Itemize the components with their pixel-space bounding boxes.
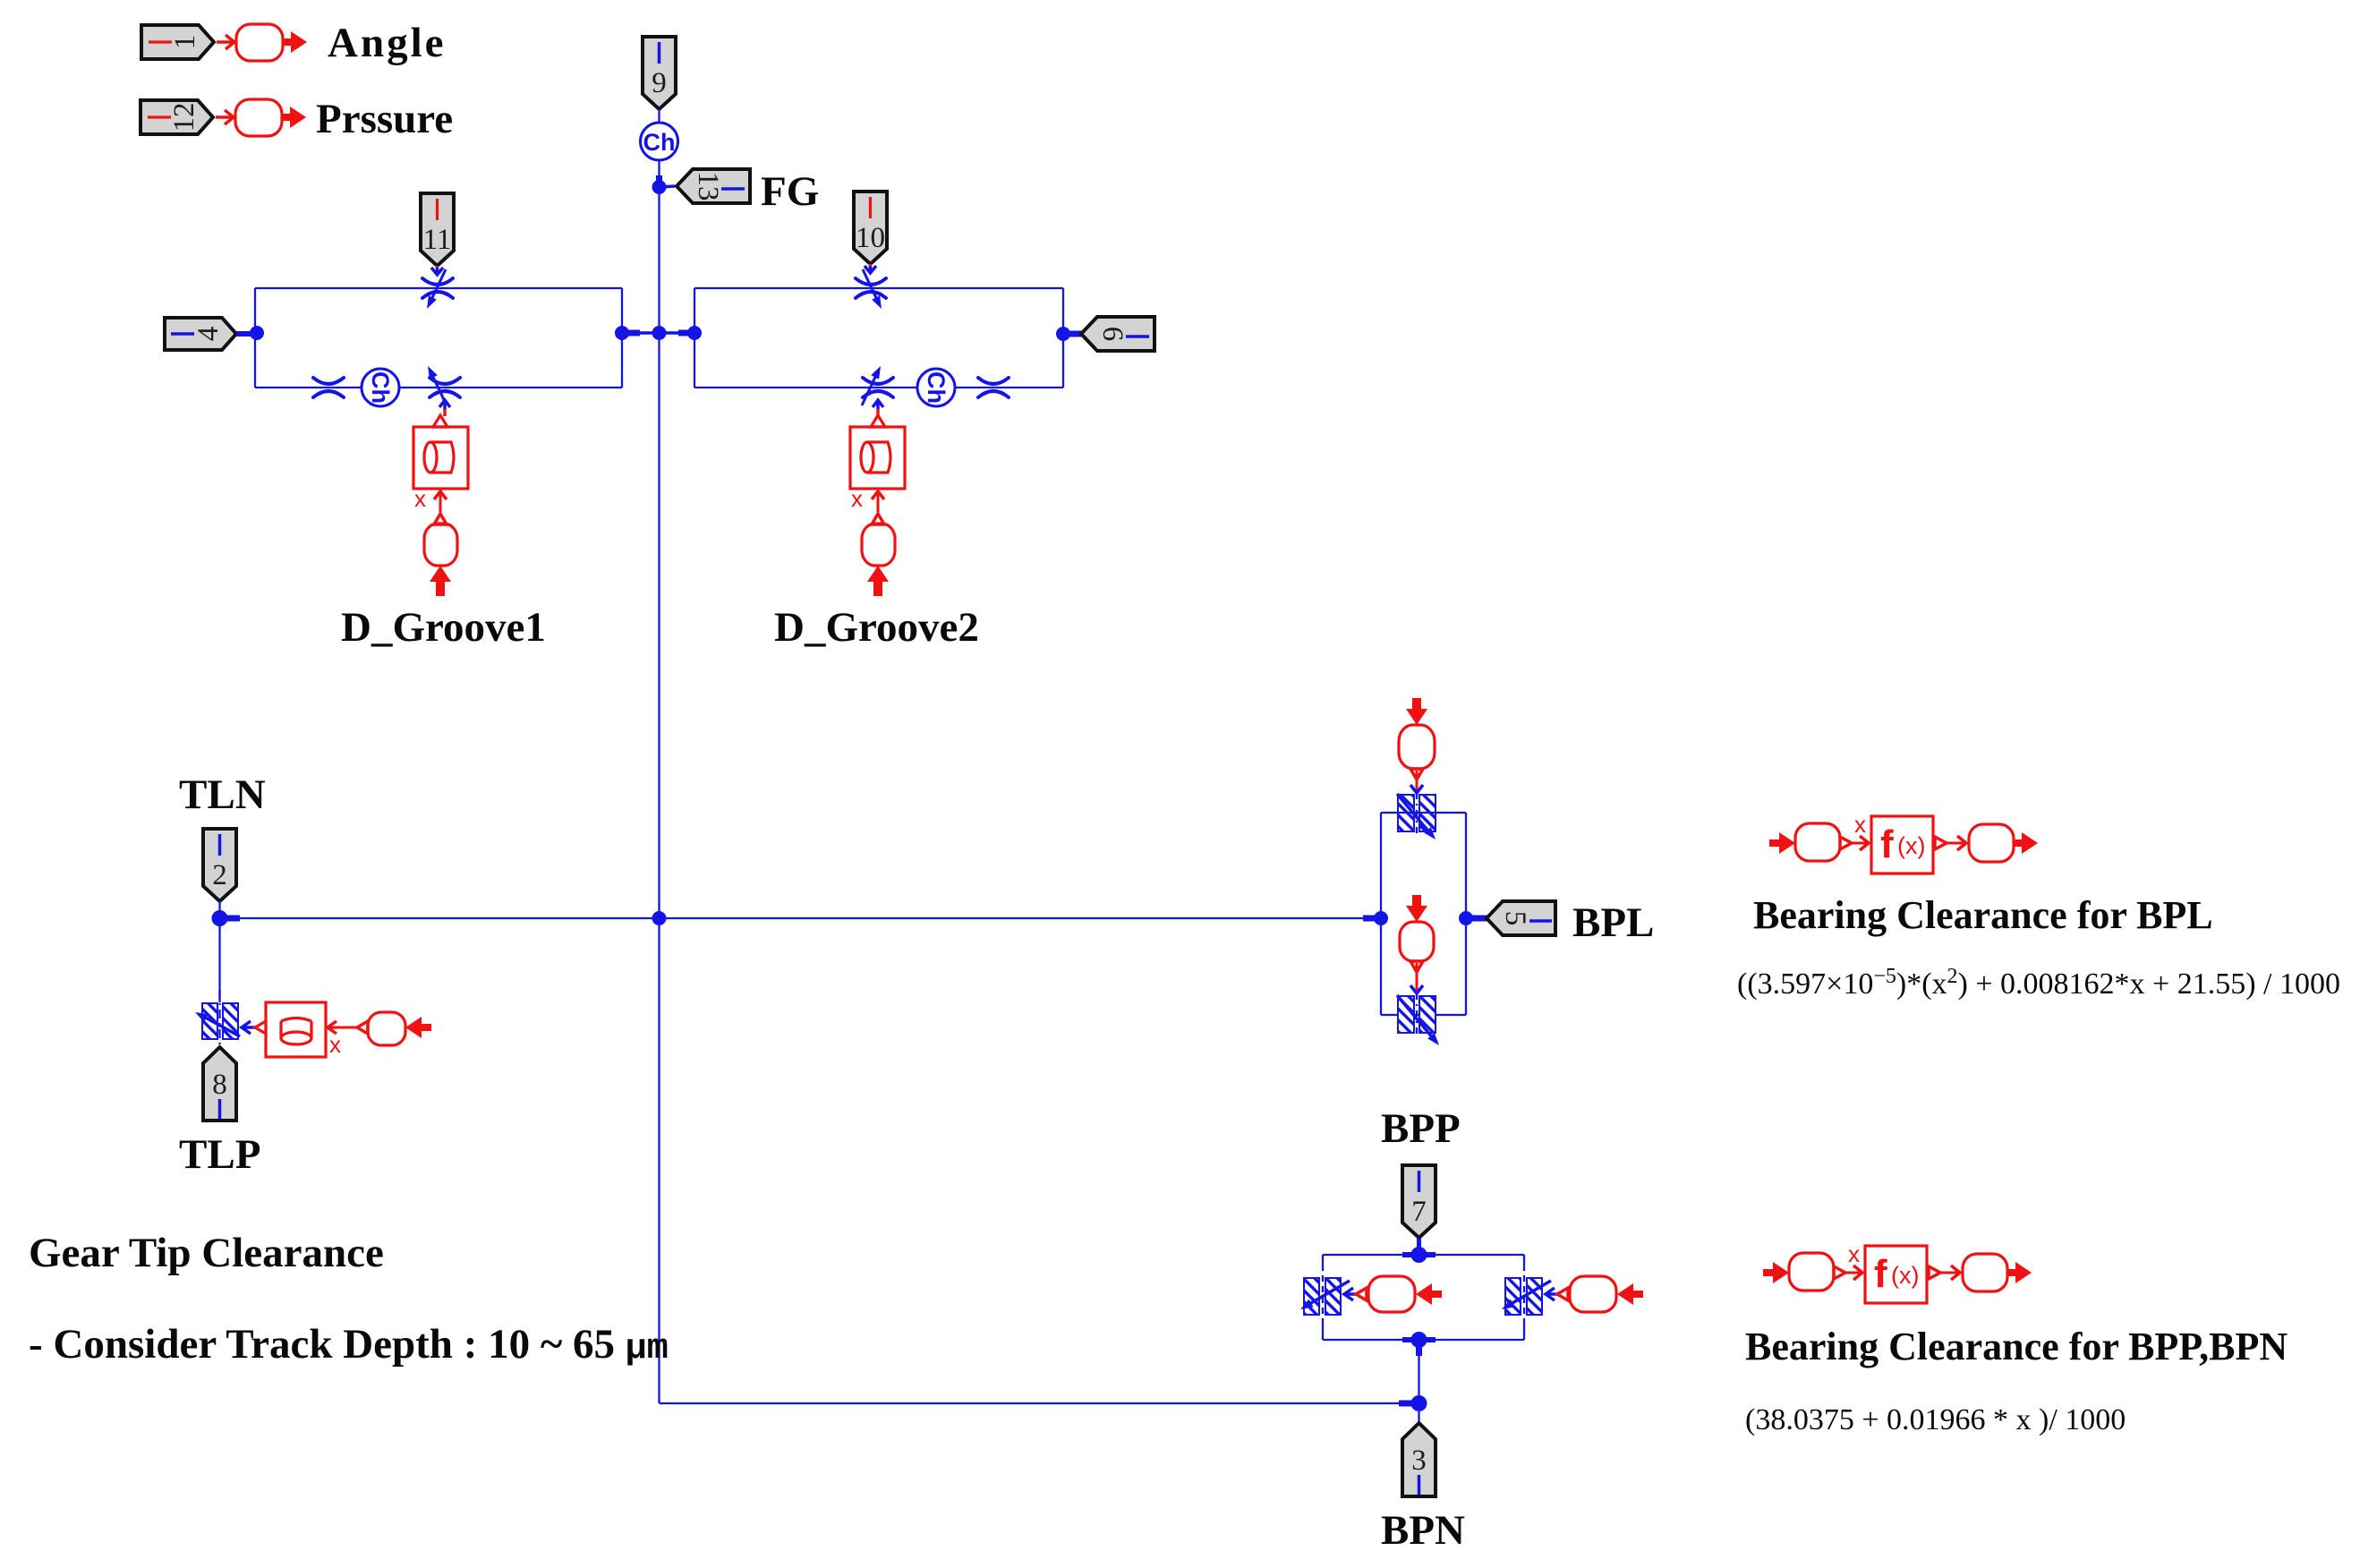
node BPN junction bbox=[1399, 1395, 1427, 1411]
signal ellipse (fx2 left) bbox=[1789, 1253, 1834, 1291]
wire loop2 to tag6 bbox=[1063, 331, 1083, 337]
svg-text:3: 3 bbox=[1411, 1444, 1427, 1477]
node BPL right port bbox=[1459, 911, 1488, 925]
signal arrow source to transducer (TLP) bbox=[328, 1021, 368, 1034]
svg-text:7: 7 bbox=[1411, 1196, 1427, 1228]
svg-text:BPL: BPL bbox=[1572, 899, 1654, 946]
signal wire with arrowhead (legend row 2) bbox=[216, 110, 234, 124]
node BPP bottom junction bbox=[1402, 1332, 1436, 1348]
svg-text:11: 11 bbox=[423, 224, 452, 256]
svg-text:(38.0375 + 0.01966 * x )/ 1000: (38.0375 + 0.01966 * x )/ 1000 bbox=[1745, 1403, 2126, 1436]
signal source ellipse (legend row 1) bbox=[236, 24, 283, 61]
MAINLINES-SECTION bbox=[220, 190, 1419, 1403]
tag 1 bbox=[141, 25, 214, 59]
node loop1 left port bbox=[250, 326, 264, 340]
GROOVE1-SECTION bbox=[165, 193, 694, 651]
solid input arrow (TLP source) bbox=[405, 1017, 431, 1038]
NOTES-SECTION bbox=[29, 1230, 669, 1369]
GROOVE2-SECTION bbox=[687, 192, 1154, 651]
TOP-SECTION bbox=[641, 37, 820, 215]
svg-text:BPP: BPP bbox=[1381, 1105, 1461, 1152]
signal ellipse (fx1 left) bbox=[1795, 823, 1840, 861]
tag 8 bbox=[203, 1047, 236, 1121]
svg-text:5: 5 bbox=[1499, 911, 1531, 926]
wire loop1 to main line bbox=[622, 331, 694, 335]
tag 12 bbox=[141, 100, 213, 134]
solid output arrow (fx2 right) bbox=[2007, 1262, 2032, 1283]
variable orifice (groove2 top) bbox=[856, 269, 886, 311]
leakage (BPL top) bbox=[1397, 793, 1439, 842]
LEGEND-SECTION bbox=[141, 20, 453, 142]
tag 5 bbox=[1487, 901, 1555, 935]
chamber Ch (top) bbox=[641, 123, 678, 160]
signal source (BPP right) bbox=[1557, 1276, 1616, 1312]
svg-text:4: 4 bbox=[192, 327, 225, 342]
signal wire source to leakage (BPL bottom) bbox=[1410, 961, 1423, 993]
svg-text:((3.597×10−5)*(x2) + 0.008162*: ((3.597×10−5)*(x2) + 0.008162*x + 21.55)… bbox=[1737, 965, 2340, 1001]
node TLN junction bbox=[212, 910, 241, 926]
wire junction to leakage bbox=[218, 918, 220, 1002]
wire main horizontal (TLN to BPL) bbox=[220, 917, 1381, 919]
solid input arrow (groove1 source) bbox=[430, 566, 451, 596]
svg-text:x: x bbox=[414, 485, 426, 512]
chamber Ch (groove2 bottom) bbox=[917, 369, 955, 406]
node main junction at y372 bbox=[652, 326, 667, 340]
node loop2 right port bbox=[1056, 327, 1070, 341]
signal wire transducer to orifice (groove2) bbox=[873, 400, 883, 416]
svg-text:Bearing Clearance for BPP,BPN: Bearing Clearance for BPP,BPN bbox=[1745, 1325, 2288, 1368]
svg-text:Prssure: Prssure bbox=[316, 96, 453, 142]
svg-text:f: f bbox=[1874, 1252, 1887, 1296]
leakage (BPL bottom) bbox=[1397, 993, 1443, 1048]
wire tag9 to chamber bbox=[658, 109, 660, 123]
svg-text:x: x bbox=[1854, 811, 1866, 838]
wire tag4 to loop1 bbox=[236, 331, 260, 337]
svg-text:8: 8 bbox=[212, 1069, 227, 1101]
node main cross junction bbox=[652, 911, 667, 925]
svg-text:Bearing Clearance for BPL: Bearing Clearance for BPL bbox=[1753, 893, 2213, 937]
tag 11 bbox=[421, 193, 454, 266]
solid input arrow (BPP left source) bbox=[1416, 1283, 1442, 1305]
svg-text:(x): (x) bbox=[1897, 832, 1925, 859]
svg-text:FG: FG bbox=[761, 168, 819, 215]
function block f(x) (fx1) bbox=[1871, 816, 1933, 873]
leakage (BPP left) bbox=[1299, 1271, 1357, 1323]
svg-text:x: x bbox=[329, 1031, 341, 1058]
svg-text:6: 6 bbox=[1096, 327, 1129, 342]
svg-text:BPN: BPN bbox=[1381, 1507, 1465, 1554]
orifice (groove2 bottom right) bbox=[978, 378, 1009, 397]
svg-text:12: 12 bbox=[168, 103, 200, 132]
signal arrow source to transducer (groove1) bbox=[434, 491, 447, 524]
solid input arrow (fx1 left) bbox=[1769, 832, 1795, 854]
displacement transducer box (groove2) bbox=[850, 415, 905, 489]
source ellipse (groove1) bbox=[424, 524, 457, 566]
signal wire to function (fx1) bbox=[1840, 836, 1869, 850]
displacement transducer box (TLP) bbox=[255, 1002, 326, 1057]
signal source (BPP left) bbox=[1356, 1276, 1415, 1312]
FX-SECTION bbox=[1737, 811, 2340, 1436]
signal wire source to leakage (BPL top) bbox=[1410, 769, 1423, 793]
node FG junction bbox=[652, 175, 676, 194]
svg-text:Ch: Ch bbox=[367, 371, 394, 404]
tag 6 bbox=[1081, 317, 1154, 351]
svg-text:13: 13 bbox=[692, 172, 724, 201]
svg-text:9: 9 bbox=[652, 67, 667, 99]
solid output arrow (legend row 2) bbox=[282, 107, 306, 128]
svg-text:10: 10 bbox=[856, 222, 885, 254]
wire loop2 rectangle bbox=[694, 288, 1063, 388]
chamber Ch (groove1 bottom) bbox=[362, 369, 399, 406]
signal wire to function (fx2) bbox=[1834, 1265, 1862, 1280]
svg-text:TLN: TLN bbox=[179, 771, 266, 818]
leakage (BPP right) bbox=[1500, 1271, 1558, 1323]
wire BPP loop rectangle bbox=[1323, 1255, 1524, 1340]
displacement transducer box (groove1) bbox=[413, 415, 468, 489]
signal wire from function (fx2) bbox=[1929, 1265, 1960, 1280]
function block f(x) (fx2) bbox=[1865, 1246, 1927, 1303]
source ellipse (groove2) bbox=[862, 524, 895, 566]
svg-text:D_Groove1: D_Groove1 bbox=[341, 604, 546, 651]
tag 7 bbox=[1402, 1165, 1436, 1238]
signal wire with arrowhead (legend row 1) bbox=[217, 35, 234, 49]
tag 2 bbox=[203, 829, 236, 901]
wire BPL loop rectangle bbox=[1381, 813, 1466, 1015]
variable orifice (groove2 bottom) bbox=[862, 364, 893, 405]
variable orifice (groove1 bottom) bbox=[424, 364, 460, 405]
tag 4 bbox=[165, 318, 236, 350]
node BPL left port bbox=[1363, 911, 1388, 925]
svg-text:Ch: Ch bbox=[643, 129, 676, 156]
signal wire from function (fx1) bbox=[1935, 836, 1966, 850]
wire loop1 rectangle bbox=[255, 288, 622, 388]
wire tag7 to loop bbox=[1417, 1238, 1421, 1255]
wire BPP to BPN junction bbox=[1418, 1340, 1419, 1423]
svg-text:f: f bbox=[1880, 822, 1894, 866]
signal wire tag11 to orifice bbox=[431, 266, 443, 275]
wire tag2 to junction bbox=[218, 901, 220, 918]
source ellipse (BPL top) bbox=[1399, 725, 1435, 769]
signal ellipse (fx1 right) bbox=[1969, 824, 2014, 862]
svg-text:D_Groove2: D_Groove2 bbox=[774, 604, 979, 651]
BPP-SECTION bbox=[1299, 1105, 1644, 1554]
wire bottom horizontal (to BPN) bbox=[660, 1402, 1420, 1404]
svg-text:Angle: Angle bbox=[328, 20, 447, 66]
BPL-SECTION bbox=[1363, 698, 1654, 1048]
node loop1 right port bbox=[615, 326, 629, 340]
wire chamber to FG junction bbox=[658, 160, 660, 190]
node BPP top junction bbox=[1402, 1247, 1436, 1263]
TLN-SECTION bbox=[179, 771, 431, 1178]
svg-text:1: 1 bbox=[169, 35, 201, 50]
svg-text:Ch: Ch bbox=[923, 371, 950, 404]
svg-text:x: x bbox=[1848, 1240, 1860, 1267]
svg-text:- Consider Track Depth : 10 ~: - Consider Track Depth : 10 ~ 65 µm bbox=[29, 1321, 669, 1369]
signal wire tag10 to orifice bbox=[865, 264, 876, 273]
orifice (groove1 bottom left) bbox=[313, 378, 344, 397]
svg-text:Gear Tip Clearance: Gear Tip Clearance bbox=[29, 1230, 384, 1276]
signal ellipse (fx2 right) bbox=[1963, 1254, 2007, 1291]
signal source ellipse (legend row 2) bbox=[235, 99, 282, 136]
tag 10 bbox=[854, 192, 887, 264]
leakage TLP (annular leak) bbox=[193, 990, 255, 1052]
svg-text:(x): (x) bbox=[1891, 1262, 1919, 1289]
tag 13 bbox=[677, 169, 750, 203]
signal wire transducer to orifice (groove1) bbox=[439, 400, 450, 416]
svg-text:2: 2 bbox=[212, 859, 227, 891]
solid input arrow (BPL top source) bbox=[1406, 698, 1427, 725]
svg-text:TLP: TLP bbox=[179, 1131, 260, 1178]
node loop2 left port bbox=[687, 326, 702, 340]
source ellipse (TLP) bbox=[368, 1012, 405, 1045]
solid input arrow (BPL mid source) bbox=[1406, 895, 1427, 922]
solid output arrow (legend row 1) bbox=[283, 31, 307, 53]
signal arrow source to transducer (groove2) bbox=[872, 491, 884, 524]
svg-text:x: x bbox=[851, 485, 863, 512]
variable orifice (groove1 top) bbox=[422, 269, 453, 311]
wire main vertical (FG line) bbox=[658, 190, 660, 1403]
solid input arrow (fx2 left) bbox=[1763, 1262, 1789, 1283]
solid input arrow (BPP right source) bbox=[1617, 1283, 1643, 1305]
solid input arrow (groove2 source) bbox=[867, 566, 889, 596]
solid output arrow (fx1 right) bbox=[2014, 832, 2038, 854]
tag 9 bbox=[643, 37, 676, 109]
tag 3 bbox=[1402, 1423, 1436, 1496]
source ellipse (BPL mid) bbox=[1400, 922, 1434, 961]
